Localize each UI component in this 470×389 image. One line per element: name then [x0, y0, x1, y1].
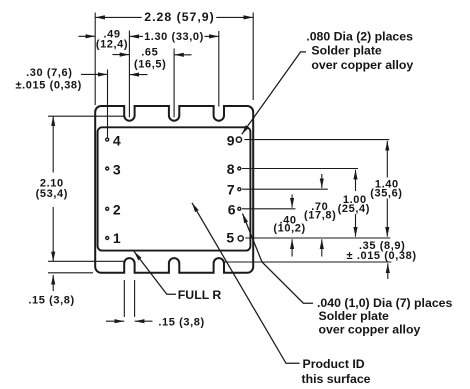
svg-text:(35,6): (35,6) — [370, 187, 402, 199]
dim 2.28 line left segment — [95, 16, 142, 18]
pin 8 terminal — [238, 167, 241, 170]
svg-text:(12,4): (12,4) — [96, 39, 128, 51]
svg-text:over copper alloy: over copper alloy — [319, 323, 421, 337]
pin 9 dimension line — [245, 139, 390, 141]
extension line left body edge — [94, 13, 96, 106]
dim 1.30 line right segment — [205, 35, 219, 37]
svg-text:4: 4 — [113, 133, 121, 149]
pin 5 terminal (.080 dia) — [238, 236, 243, 241]
svg-text:Solder plate: Solder plate — [311, 44, 382, 58]
svg-text:± .015 (0,38): ± .015 (0,38) — [347, 250, 417, 262]
svg-text:±.015 (0,38): ±.015 (0,38) — [15, 80, 81, 92]
svg-text:9: 9 — [227, 132, 235, 148]
dim .30 right arrow — [129, 74, 147, 76]
extension line notch right side — [134, 280, 136, 317]
extension line right seating plane — [224, 261, 392, 263]
dim .65 left arrow — [113, 54, 130, 56]
inner body rectangle — [98, 127, 251, 250]
svg-text:(17,8): (17,8) — [304, 210, 336, 222]
dim 1.00 bottom arrow — [355, 214, 357, 237]
pin 4 terminal — [106, 138, 109, 141]
svg-text:6: 6 — [228, 202, 236, 218]
svg-text:1: 1 — [113, 230, 121, 246]
extension line right body edge — [252, 13, 254, 101]
svg-text:.080 Dia (2) places: .080 Dia (2) places — [306, 29, 413, 43]
pin 5 dimension line — [245, 237, 390, 239]
extension line bottom seating plane — [48, 260, 124, 262]
svg-text:(16,5): (16,5) — [134, 58, 166, 70]
svg-text:5: 5 — [226, 230, 234, 246]
leader line .040 dia note — [243, 214, 314, 304]
leader line Product ID — [192, 203, 300, 363]
extension line notch 3 centerline — [218, 31, 220, 107]
pin 3 terminal — [106, 167, 109, 170]
dim 2.10 line lower segment — [52, 207, 54, 261]
dim 1.00 top arrow — [355, 170, 357, 191]
svg-text:FULL R: FULL R — [178, 288, 222, 302]
dim .70 bottom arrow — [321, 239, 323, 256]
svg-text:Solder plate: Solder plate — [319, 309, 390, 323]
extension line notch 1 centerline — [128, 31, 130, 118]
dim 1.40 bottom arrow — [386, 199, 388, 237]
svg-text:over copper alloy: over copper alloy — [311, 58, 413, 72]
leader line FULL R — [134, 251, 176, 294]
dim .15 left arrow — [52, 275, 54, 291]
pin 9 terminal (.080 dia) — [236, 137, 241, 142]
dim .35 bottom arrow — [387, 263, 389, 279]
svg-text:(53,4): (53,4) — [36, 188, 68, 200]
svg-text:.15 (3,8): .15 (3,8) — [158, 316, 204, 328]
svg-text:Product ID: Product ID — [303, 357, 365, 371]
extension line top seating plane — [48, 115, 124, 117]
svg-text:.15 (3,8): .15 (3,8) — [28, 295, 74, 307]
svg-text:(25,4): (25,4) — [338, 203, 370, 215]
pin 6 terminal — [238, 207, 241, 210]
pin 8 dimension line — [242, 168, 358, 170]
svg-text:7: 7 — [227, 182, 235, 198]
dim .40 top arrow — [291, 195, 293, 208]
package body outline — [95, 106, 253, 273]
dim .15 bottom right arrow — [135, 320, 153, 322]
extension line notch left side — [123, 280, 125, 317]
pin 2 terminal — [106, 207, 109, 210]
pin 7 terminal — [238, 188, 241, 191]
svg-text:1.30 (33,0): 1.30 (33,0) — [144, 31, 204, 43]
extension line body bottom edge — [48, 272, 93, 274]
pin 6 dimension line — [242, 208, 295, 210]
svg-text:.30 (7,6): .30 (7,6) — [26, 67, 72, 79]
svg-text:(10,2): (10,2) — [273, 223, 305, 235]
pin 1 terminal — [106, 237, 109, 240]
svg-text:8: 8 — [227, 161, 235, 177]
dim .30 left arrow — [81, 73, 108, 75]
dim 2.10 line upper segment — [52, 116, 54, 172]
dim 1.30 line left segment — [129, 35, 143, 37]
extension line pin column — [107, 70, 109, 138]
svg-text:2: 2 — [113, 202, 121, 218]
svg-text:.040 (1,0) Dia (7) places: .040 (1,0) Dia (7) places — [317, 296, 452, 310]
leader line .080 dia note — [242, 52, 306, 134]
dim .70 top arrow — [321, 174, 323, 188]
dim .40 bottom arrow — [291, 239, 293, 256]
svg-text:3: 3 — [113, 161, 121, 177]
dim .65 right arrow — [174, 54, 191, 56]
dim 1.40 top arrow — [386, 141, 388, 178]
svg-text:2.28 (57,9): 2.28 (57,9) — [144, 10, 214, 24]
svg-text:.65: .65 — [141, 47, 158, 59]
extension line notch 2 centerline — [173, 49, 175, 118]
dim .49 arrow — [79, 35, 96, 37]
svg-text:this surface: this surface — [302, 372, 371, 386]
dim 2.28 line right segment — [216, 16, 253, 18]
pin 7 dimension line — [242, 188, 328, 190]
dim .15 bottom left arrow — [106, 320, 124, 322]
